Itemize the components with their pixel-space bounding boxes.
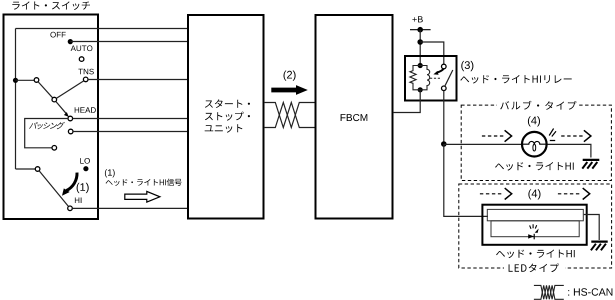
wire to bulb: [444, 143, 523, 145]
wire: lever travel arrow toward HEAD: [56, 102, 66, 114]
ground symbol bulb: [582, 160, 599, 169]
wire relay coil to FBCM: [393, 90, 420, 113]
LED type dashed box: [459, 184, 612, 268]
label light switch title (raito suicchi): [12, 1, 90, 10]
contact passing circle: [68, 129, 73, 134]
wire HI to unit: [72, 207, 188, 209]
label start-stop unit line3: [205, 124, 243, 133]
bulb light rays: [549, 129, 556, 141]
wire LED to ground: [584, 215, 599, 241]
contact HI circle: [68, 206, 73, 211]
wire TNS to unit: [88, 79, 188, 81]
label (2): [284, 71, 296, 81]
node relay coil top dot: [418, 63, 423, 68]
bulb type dashed box: [461, 105, 611, 180]
wire: branch to upper lever pivot: [16, 79, 35, 81]
label passing (passhingu): [29, 122, 65, 129]
bulb filament: [523, 141, 546, 144]
label (1) signal: [105, 169, 115, 177]
light switch SW1 box: [4, 15, 99, 220]
label (4) bulb: [528, 116, 540, 126]
wire HEAD to unit: [73, 118, 188, 120]
LED diode symbol: [528, 234, 534, 238]
wire: switch common bus left vertical: [15, 29, 17, 170]
contact: lever joint circle: [52, 97, 57, 102]
wire +B branch to relay switch: [420, 42, 444, 64]
contact LO dot: [83, 166, 88, 171]
relay coil winding: [420, 66, 429, 90]
dashed light arrow left (bulb): [482, 135, 504, 137]
relay switch top contact: [442, 64, 447, 69]
LED unit inner lower box: [491, 221, 579, 237]
headlight HI relay box: [405, 56, 457, 101]
contact TNS circle: [83, 77, 88, 82]
contact HEAD circle: [68, 116, 73, 121]
wire: lower lever arm toward HI: [39, 171, 68, 207]
label start-stop unit line2: [205, 112, 250, 121]
wire relay output down to LED: [444, 144, 488, 216]
contact: upper lever pivot circle: [34, 78, 39, 83]
node junction to bulb: [441, 141, 447, 147]
wire: branch to lower lever pivot: [16, 168, 36, 170]
legend label HS-CAN: [568, 288, 612, 295]
wire: lever arm pivot to joint: [38, 82, 52, 98]
label TNS: [78, 69, 93, 75]
bulb headlight HI lamp: [522, 132, 547, 157]
start-stop unit box: [188, 15, 264, 219]
HS-CAN twisted pair wire A: [264, 103, 316, 128]
FBCM module box: [316, 15, 393, 219]
contact AUTO circle: [79, 57, 84, 62]
label bulb type (barubu taipu): [500, 101, 576, 110]
curved arrow LO to HI: [66, 173, 77, 191]
resistor inside relay: [410, 66, 420, 90]
wire relay switch output down: [443, 91, 445, 144]
relay switch blade: [445, 70, 453, 86]
wire HEAD left to passing loop: [25, 119, 68, 148]
LED headlight unit box: [482, 205, 586, 245]
label FBCM: [341, 114, 368, 121]
dashed light arrow left (LED): [480, 193, 502, 195]
LED unit inner top bar: [487, 209, 583, 220]
label OFF: [50, 32, 65, 38]
label HI: [75, 198, 82, 204]
wire bulb to ground: [546, 144, 591, 157]
wire: switch common bus top: [16, 28, 189, 30]
curved arrow relay actuation: [437, 68, 444, 72]
legend twisted pair symbol wire A: [534, 285, 564, 299]
contact: lower lever pivot circle: [35, 167, 40, 172]
contact OFF dot: [68, 39, 73, 44]
node: common junction dot: [13, 78, 18, 83]
label AUTO: [71, 45, 93, 51]
+B supply bar: [410, 29, 431, 31]
dashed light arrow right (LED): [558, 193, 580, 195]
label +B supply: [412, 16, 422, 22]
dashed light arrow right (bulb): [561, 135, 583, 137]
wire passing to unit: [73, 131, 188, 133]
dashed actuation link: [430, 77, 442, 79]
label LO: [80, 158, 90, 164]
wire: lever joint to TNS contact: [57, 81, 84, 98]
ground symbol LED: [591, 242, 608, 251]
LED emission rays: [530, 224, 537, 229]
label headlight HI (bulb): [495, 162, 574, 171]
label HEAD: [75, 107, 96, 113]
relay switch bottom contact: [442, 86, 447, 91]
outlined signal arrow: [125, 191, 160, 202]
HS-CAN twisted pair wire B: [264, 103, 316, 128]
wire +B down to relay coil: [419, 30, 421, 64]
label (3): [461, 61, 473, 71]
wire OFF to unit: [70, 41, 188, 43]
label LED type (LED taipu): [509, 263, 559, 272]
node dot below +B bar: [417, 27, 423, 33]
black arrow (2) CAN direction: [271, 85, 308, 95]
label headlight HI relay (heddo raito HI riree): [460, 75, 571, 84]
node relay coil bottom dot: [418, 87, 423, 92]
label (4) LED: [528, 189, 540, 199]
legend twisted pair symbol wire B: [534, 285, 564, 299]
label headlight HI (LED): [496, 250, 575, 259]
contact passing loop end circle: [52, 146, 57, 151]
label start-stop unit line1: [205, 99, 250, 108]
node dot +B branch: [417, 39, 423, 45]
label (1) switch: [77, 183, 89, 193]
label headlight HI signal (heddo raito HI shingo): [106, 179, 182, 186]
